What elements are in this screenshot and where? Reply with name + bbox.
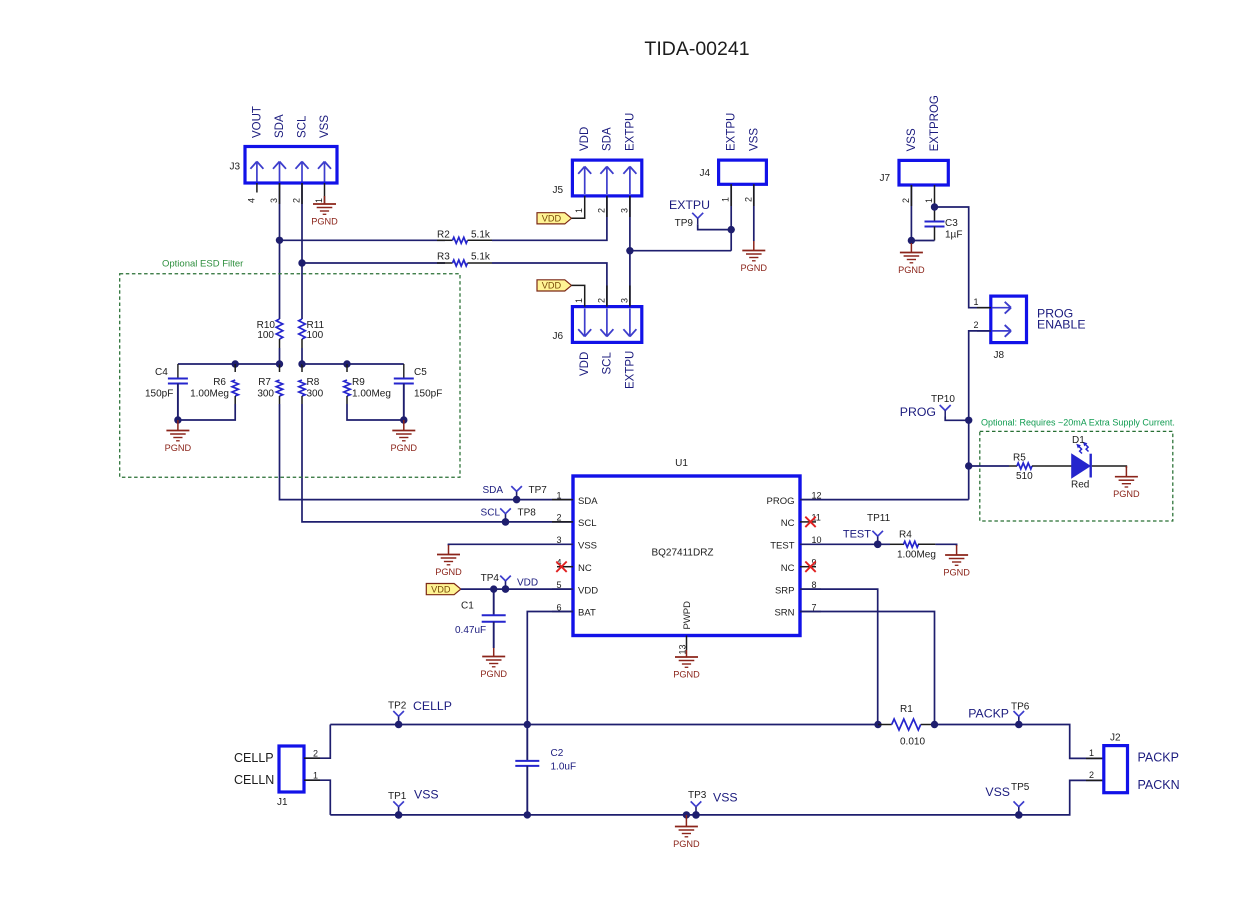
svg-text:SCL: SCL <box>297 115 309 138</box>
svg-text:C3: C3 <box>945 218 958 229</box>
svg-text:1µF: 1µF <box>945 230 962 241</box>
wire ESD right horizontal <box>302 363 404 365</box>
resistor R2 <box>437 237 492 243</box>
svg-text:2: 2 <box>596 208 606 213</box>
node C4/R6 ground junction <box>174 416 181 423</box>
svg-text:VDD: VDD <box>579 127 591 151</box>
svg-text:R8: R8 <box>307 377 320 388</box>
pin stub U1 pin 2 <box>552 521 573 523</box>
connector J3 <box>245 147 337 184</box>
svg-text:TEST: TEST <box>770 541 794 552</box>
svg-text:VSS: VSS <box>906 128 918 151</box>
node SDA/ESD junction <box>276 360 283 367</box>
svg-text:R1: R1 <box>900 704 913 715</box>
svg-text:VDD: VDD <box>517 578 538 589</box>
wire D1 cathode to ground <box>1092 466 1127 468</box>
pin lead J6 pin2 <box>606 286 608 307</box>
svg-text:1: 1 <box>314 198 324 203</box>
LED D1 <box>1072 442 1091 478</box>
svg-text:J3: J3 <box>229 162 240 173</box>
svg-text:1.0uF: 1.0uF <box>551 762 577 773</box>
wire EXTPROG to J8 pin1 <box>935 207 992 308</box>
svg-text:J5: J5 <box>552 185 563 196</box>
test point TP1 on VSS rail <box>393 801 404 818</box>
boundary optional ESD filter dashed box <box>120 274 460 478</box>
connector J8 <box>991 296 1027 343</box>
ground PGND under C5 <box>391 420 418 453</box>
node VSS ground junction <box>683 811 690 818</box>
no-connect X on U1 pin 4 <box>556 562 566 572</box>
node R6 top junction <box>232 360 239 367</box>
svg-text:TP1: TP1 <box>388 791 407 802</box>
svg-text:EXTPU: EXTPU <box>726 113 738 151</box>
wire R3 to J6 pin2 <box>492 263 607 307</box>
pin lead J6 pin3 <box>629 286 631 307</box>
resistor R7 <box>276 364 282 404</box>
ground PGND under U1 pin 13 <box>673 650 700 680</box>
ground PGND under D1 <box>1113 466 1140 499</box>
svg-text:PGND: PGND <box>673 839 700 849</box>
node C2/VSS junction <box>524 811 531 818</box>
svg-text:SRP: SRP <box>775 585 795 596</box>
node SRN/R1 junction <box>931 721 938 728</box>
svg-text:R9: R9 <box>352 377 365 388</box>
svg-text:2: 2 <box>743 197 753 202</box>
svg-text:PROG: PROG <box>767 496 795 507</box>
svg-text:1: 1 <box>574 208 584 213</box>
connector J5 <box>572 160 641 196</box>
svg-text:PGND: PGND <box>898 265 925 275</box>
wire R9 bottom to C5 <box>347 404 404 420</box>
wire SDA to R2 <box>280 239 446 241</box>
test point TP6 on PACKP <box>1014 711 1025 728</box>
wire VSS pin3 to ground <box>449 543 574 546</box>
pin stub U1 pin 7 <box>800 611 821 613</box>
wire EXTPU horizontal to J4 <box>630 250 731 252</box>
node EXTPROG junction <box>931 203 938 210</box>
svg-text:CELLP: CELLP <box>234 751 274 765</box>
svg-text:2: 2 <box>1089 770 1094 780</box>
svg-text:510: 510 <box>1016 471 1033 482</box>
node SCL/R3 junction <box>298 259 305 266</box>
wire VDD flag to J6 pin1 <box>572 285 585 306</box>
test point TP4 on VDD <box>500 576 511 593</box>
svg-text:1.00Meg: 1.00Meg <box>190 389 229 400</box>
ground PGND under C1 <box>480 648 507 679</box>
wire ESD left horizontal <box>178 363 280 365</box>
svg-text:1: 1 <box>721 197 731 202</box>
svg-text:PWPD: PWPD <box>682 601 693 630</box>
node SCL/ESD junction <box>298 360 305 367</box>
no-connect X on U1 pin 11 <box>805 517 815 527</box>
IC U1 BQ27411DRZ <box>573 476 800 636</box>
wire R10 to junction <box>279 348 281 364</box>
wire J3 pin1 to ground <box>324 183 326 204</box>
svg-text:J8: J8 <box>994 350 1005 361</box>
node C5/R9 ground junction <box>400 416 407 423</box>
capacitor C2 <box>515 725 539 815</box>
svg-text:PACKP: PACKP <box>1138 751 1179 765</box>
svg-text:Optional: Requires ~20mA Extra: Optional: Requires ~20mA Extra Supply Cu… <box>981 418 1175 428</box>
svg-text:NC: NC <box>578 563 592 574</box>
svg-text:300: 300 <box>257 389 274 400</box>
wire CELLP rail <box>330 724 878 726</box>
wire J8 pin2 down PROG net <box>969 331 991 500</box>
svg-text:5.1k: 5.1k <box>471 230 491 241</box>
svg-text:2: 2 <box>901 198 911 203</box>
svg-text:VSS: VSS <box>748 128 760 151</box>
resistor R11 <box>299 319 306 348</box>
connector J4 <box>719 160 767 184</box>
wire J1 pin1 to VSS rail <box>304 780 330 815</box>
svg-text:PGND: PGND <box>165 443 192 453</box>
svg-text:VOUT: VOUT <box>251 106 263 138</box>
svg-text:VDD: VDD <box>542 281 562 291</box>
power flag VDD at J5 <box>537 213 572 224</box>
svg-text:VDD: VDD <box>542 214 562 224</box>
wire C3 bottom to J7 pin2 line <box>911 240 934 242</box>
test point TP5 on VSS rail <box>1014 801 1025 818</box>
test point TP11 on TEST <box>872 531 883 548</box>
node EXTPU/TP9 junction <box>728 226 735 233</box>
svg-text:0.47uF: 0.47uF <box>455 625 486 636</box>
svg-text:PGND: PGND <box>673 670 700 680</box>
pin stub U1 pin 3 <box>552 543 573 545</box>
svg-text:5.1k: 5.1k <box>471 252 491 263</box>
svg-text:100: 100 <box>307 330 324 341</box>
svg-text:CELLN: CELLN <box>234 773 274 787</box>
ground PGND on U1 VSS <box>435 545 462 577</box>
pin lead J8 pin1 <box>977 307 991 309</box>
wire PROG pin12 to vertical <box>800 499 969 501</box>
svg-text:2: 2 <box>313 749 318 759</box>
svg-text:SCL: SCL <box>578 518 596 529</box>
svg-text:VSS: VSS <box>319 115 331 138</box>
svg-text:C4: C4 <box>155 367 168 378</box>
svg-text:J4: J4 <box>699 168 710 179</box>
wire J5 pin3 to EXTPU junction <box>629 196 631 251</box>
svg-text:TP5: TP5 <box>1011 782 1030 793</box>
svg-text:PACKP: PACKP <box>968 707 1009 721</box>
connector J1 <box>279 746 304 792</box>
wire PROG junction to R5 <box>969 465 1009 467</box>
svg-text:TP6: TP6 <box>1011 702 1030 713</box>
svg-text:PGND: PGND <box>391 443 418 453</box>
svg-text:3: 3 <box>619 298 629 303</box>
wire R4 to ground <box>935 544 956 546</box>
svg-text:J1: J1 <box>277 797 288 808</box>
no-connect X on U1 pin 9 <box>805 562 815 572</box>
pin stub U1 pin 6 <box>552 611 573 613</box>
svg-text:R6: R6 <box>213 377 226 388</box>
node EXTPU junction at J5 pin3 <box>626 247 633 254</box>
capacitor C1 <box>482 589 506 648</box>
svg-text:J6: J6 <box>552 331 563 342</box>
svg-text:R7: R7 <box>258 377 271 388</box>
svg-text:1: 1 <box>973 297 978 307</box>
wire VDD flag to U1 pin5 <box>461 588 573 590</box>
node PROG/R5 junction <box>965 462 972 469</box>
svg-text:TIDA-00241: TIDA-00241 <box>644 38 749 60</box>
pin stub U1 pin 11 NC <box>800 521 816 523</box>
test point TP2 on CELLP <box>393 711 404 728</box>
test point TP10 <box>940 405 969 420</box>
wire BAT pin6 down to CELLP rail <box>527 612 573 725</box>
node BAT/C2 junction <box>524 721 531 728</box>
wire SRP pin8 down to R1 <box>800 589 878 724</box>
ground PGND on VSS rail <box>673 815 700 849</box>
svg-text:ENABLE: ENABLE <box>1037 318 1086 332</box>
svg-text:1: 1 <box>574 298 584 303</box>
svg-text:VSS: VSS <box>414 788 439 802</box>
test point TP8 on SCL <box>500 508 511 525</box>
pin lead J2 pin2 <box>1086 779 1104 781</box>
svg-text:SCL: SCL <box>481 508 501 519</box>
wire SCL down to U1 row <box>302 404 573 522</box>
pin lead J2 pin1 <box>1086 757 1104 759</box>
resistor R4 <box>890 541 935 547</box>
svg-text:TP2: TP2 <box>388 701 407 712</box>
svg-text:EXTPU: EXTPU <box>624 351 636 389</box>
ground PGND after R4 <box>943 545 970 578</box>
svg-text:VDD: VDD <box>578 585 598 596</box>
svg-text:PROG: PROG <box>900 405 936 419</box>
svg-text:SRN: SRN <box>774 608 794 619</box>
svg-text:J7: J7 <box>879 173 890 184</box>
node SRP/R1 junction <box>874 721 881 728</box>
svg-text:0.010: 0.010 <box>900 737 925 748</box>
svg-text:VSS: VSS <box>713 791 738 805</box>
svg-text:TP10: TP10 <box>931 394 955 405</box>
svg-text:TP9: TP9 <box>675 218 694 229</box>
pin lead J8 pin2 <box>977 330 991 332</box>
svg-text:C2: C2 <box>551 748 564 759</box>
svg-text:Optional ESD Filter: Optional ESD Filter <box>162 259 243 270</box>
power flag VDD at U1 <box>426 584 461 595</box>
svg-text:1.00Meg: 1.00Meg <box>352 389 391 400</box>
node R9 top junction <box>343 360 350 367</box>
svg-text:EXTPU: EXTPU <box>669 198 710 212</box>
svg-text:SDA: SDA <box>274 114 286 138</box>
svg-text:PACKN: PACKN <box>1138 778 1180 792</box>
svg-text:PGND: PGND <box>741 263 768 273</box>
capacitor C4 <box>168 364 188 420</box>
wire R11 to junction <box>301 348 303 364</box>
test point TP9 <box>692 213 731 230</box>
svg-text:CELLP: CELLP <box>413 699 452 713</box>
wire VDD flag to J5 pin1 <box>572 196 585 218</box>
wire PACKP rail <box>935 725 1104 759</box>
wire SCL vertical from J3 pin2 <box>301 183 303 319</box>
node VDD/C1 junction <box>490 585 497 592</box>
resistor R5 <box>1009 463 1045 469</box>
pin lead J1 pin2 <box>304 757 320 759</box>
ground PGND under J3 <box>311 196 338 227</box>
resistor R1 <box>878 719 935 730</box>
svg-text:100: 100 <box>257 330 274 341</box>
power flag VDD at J6 <box>537 280 572 291</box>
svg-text:SDA: SDA <box>482 485 503 496</box>
pin lead J4 pin2 <box>753 184 755 206</box>
pin stub U1 pin 13 <box>686 636 688 651</box>
node TEST/TP11 junction <box>874 541 881 548</box>
svg-text:1.00Meg: 1.00Meg <box>897 550 936 561</box>
pin lead J3 pin3 <box>279 183 281 204</box>
svg-text:BQ27411DRZ: BQ27411DRZ <box>651 548 713 559</box>
svg-text:VSS: VSS <box>985 785 1010 799</box>
svg-text:PGND: PGND <box>480 669 507 679</box>
resistor R9 <box>344 364 350 404</box>
node C3/VSS junction <box>908 237 915 244</box>
wire TEST pin10 to R4 <box>800 543 890 545</box>
node PROG/TP10 junction <box>965 417 972 424</box>
resistor R3 <box>437 260 492 266</box>
svg-text:TP11: TP11 <box>867 513 891 524</box>
pin lead J1 pin1 <box>304 779 320 781</box>
svg-text:PGND: PGND <box>311 217 338 227</box>
svg-text:2: 2 <box>973 320 978 330</box>
test point TP7 on SDA <box>511 486 522 503</box>
svg-text:300: 300 <box>307 389 324 400</box>
wire SDA vertical from J3 pin3 <box>279 183 281 319</box>
svg-text:R4: R4 <box>899 530 912 541</box>
svg-text:150pF: 150pF <box>414 389 442 400</box>
capacitor C5 <box>394 364 414 420</box>
svg-text:TP4: TP4 <box>481 573 500 584</box>
resistor R6 <box>232 364 238 404</box>
svg-text:1: 1 <box>313 771 318 781</box>
wire SDA down to U1 row <box>280 404 574 500</box>
svg-text:R5: R5 <box>1013 453 1026 464</box>
pin stub U1 pin 12 <box>800 499 821 501</box>
svg-text:EXTPROG: EXTPROG <box>929 95 941 151</box>
connector J6 <box>572 307 641 343</box>
connector J2 <box>1104 746 1128 793</box>
wire SRN pin7 down to R1 <box>800 612 935 725</box>
wire VSS rail <box>330 780 1104 815</box>
svg-text:3: 3 <box>619 208 629 213</box>
svg-text:1: 1 <box>924 198 934 203</box>
ground PGND under C4 <box>165 420 192 453</box>
pin lead J5 pin3 <box>629 196 631 217</box>
svg-text:C1: C1 <box>461 601 474 612</box>
pin stub U1 pin 8 <box>800 588 821 590</box>
ground PGND under J7 <box>898 243 925 275</box>
svg-text:R2: R2 <box>437 230 450 241</box>
svg-text:NC: NC <box>781 563 795 574</box>
svg-text:TEST: TEST <box>843 529 871 541</box>
svg-text:VDD: VDD <box>431 584 451 594</box>
svg-text:TP3: TP3 <box>688 790 707 801</box>
svg-text:PGND: PGND <box>943 568 970 578</box>
svg-text:R3: R3 <box>437 252 450 263</box>
svg-text:D1: D1 <box>1072 435 1085 446</box>
svg-text:SDA: SDA <box>601 127 613 151</box>
pin stub U1 pin 4 NC <box>557 566 573 568</box>
resistor R10 <box>276 319 283 348</box>
svg-text:VSS: VSS <box>578 541 597 552</box>
pin lead J3 pin2 <box>301 183 303 204</box>
node SDA/R2 junction <box>276 237 283 244</box>
svg-text:TP8: TP8 <box>518 508 537 519</box>
svg-text:C5: C5 <box>414 367 427 378</box>
capacitor C3 <box>925 222 945 241</box>
wire J3 pin4 stub <box>256 183 258 193</box>
test point TP3 on VSS rail <box>691 801 702 818</box>
svg-text:NC: NC <box>781 518 795 529</box>
svg-text:U1: U1 <box>675 458 688 469</box>
pin stub U1 pin 9 NC <box>800 566 816 568</box>
wire J7 pin1 to C3 <box>934 185 936 222</box>
svg-text:PGND: PGND <box>1113 489 1140 499</box>
wire J7 pin2 down <box>910 185 912 243</box>
svg-text:4: 4 <box>246 198 256 203</box>
svg-text:J2: J2 <box>1110 733 1121 744</box>
resistor R8 <box>299 364 305 404</box>
svg-text:SDA: SDA <box>578 496 598 507</box>
wire R6 bottom to C4 <box>178 404 235 420</box>
pin stub U1 pin 10 <box>800 543 821 545</box>
svg-text:BAT: BAT <box>578 608 596 619</box>
connector J7 <box>899 160 948 185</box>
pin stub U1 pin 1 <box>552 499 573 501</box>
svg-text:TP7: TP7 <box>529 485 548 496</box>
ground PGND under J4 <box>741 241 768 273</box>
wire R5 to D1 <box>1045 465 1072 467</box>
wire SCL to R3 <box>302 262 445 264</box>
svg-text:2: 2 <box>292 198 302 203</box>
wire J1 pin2 to CELLP rail <box>304 725 330 759</box>
svg-text:PGND: PGND <box>435 567 462 577</box>
boundary optional LED dashed box <box>980 431 1173 521</box>
svg-text:EXTPU: EXTPU <box>624 113 636 151</box>
svg-text:3: 3 <box>269 198 279 203</box>
wire J4 pin2 to ground <box>753 184 755 241</box>
svg-text:150pF: 150pF <box>145 389 173 400</box>
pin lead J4 pin1 <box>730 184 732 206</box>
wire J4 pin1 down <box>730 184 732 250</box>
svg-text:VDD: VDD <box>579 352 591 376</box>
pin stub U1 pin 5 <box>552 588 573 590</box>
svg-text:2: 2 <box>596 298 606 303</box>
svg-text:Red: Red <box>1071 480 1089 491</box>
pin lead J7 pin2 <box>910 185 912 206</box>
svg-text:1: 1 <box>1089 748 1094 758</box>
wire EXTPU junction down to J6 pin3 <box>629 251 631 307</box>
svg-text:SCL: SCL <box>601 352 613 375</box>
wire R2 to J5 pin2 <box>492 196 607 240</box>
pin lead J5 pin2 <box>606 196 608 217</box>
